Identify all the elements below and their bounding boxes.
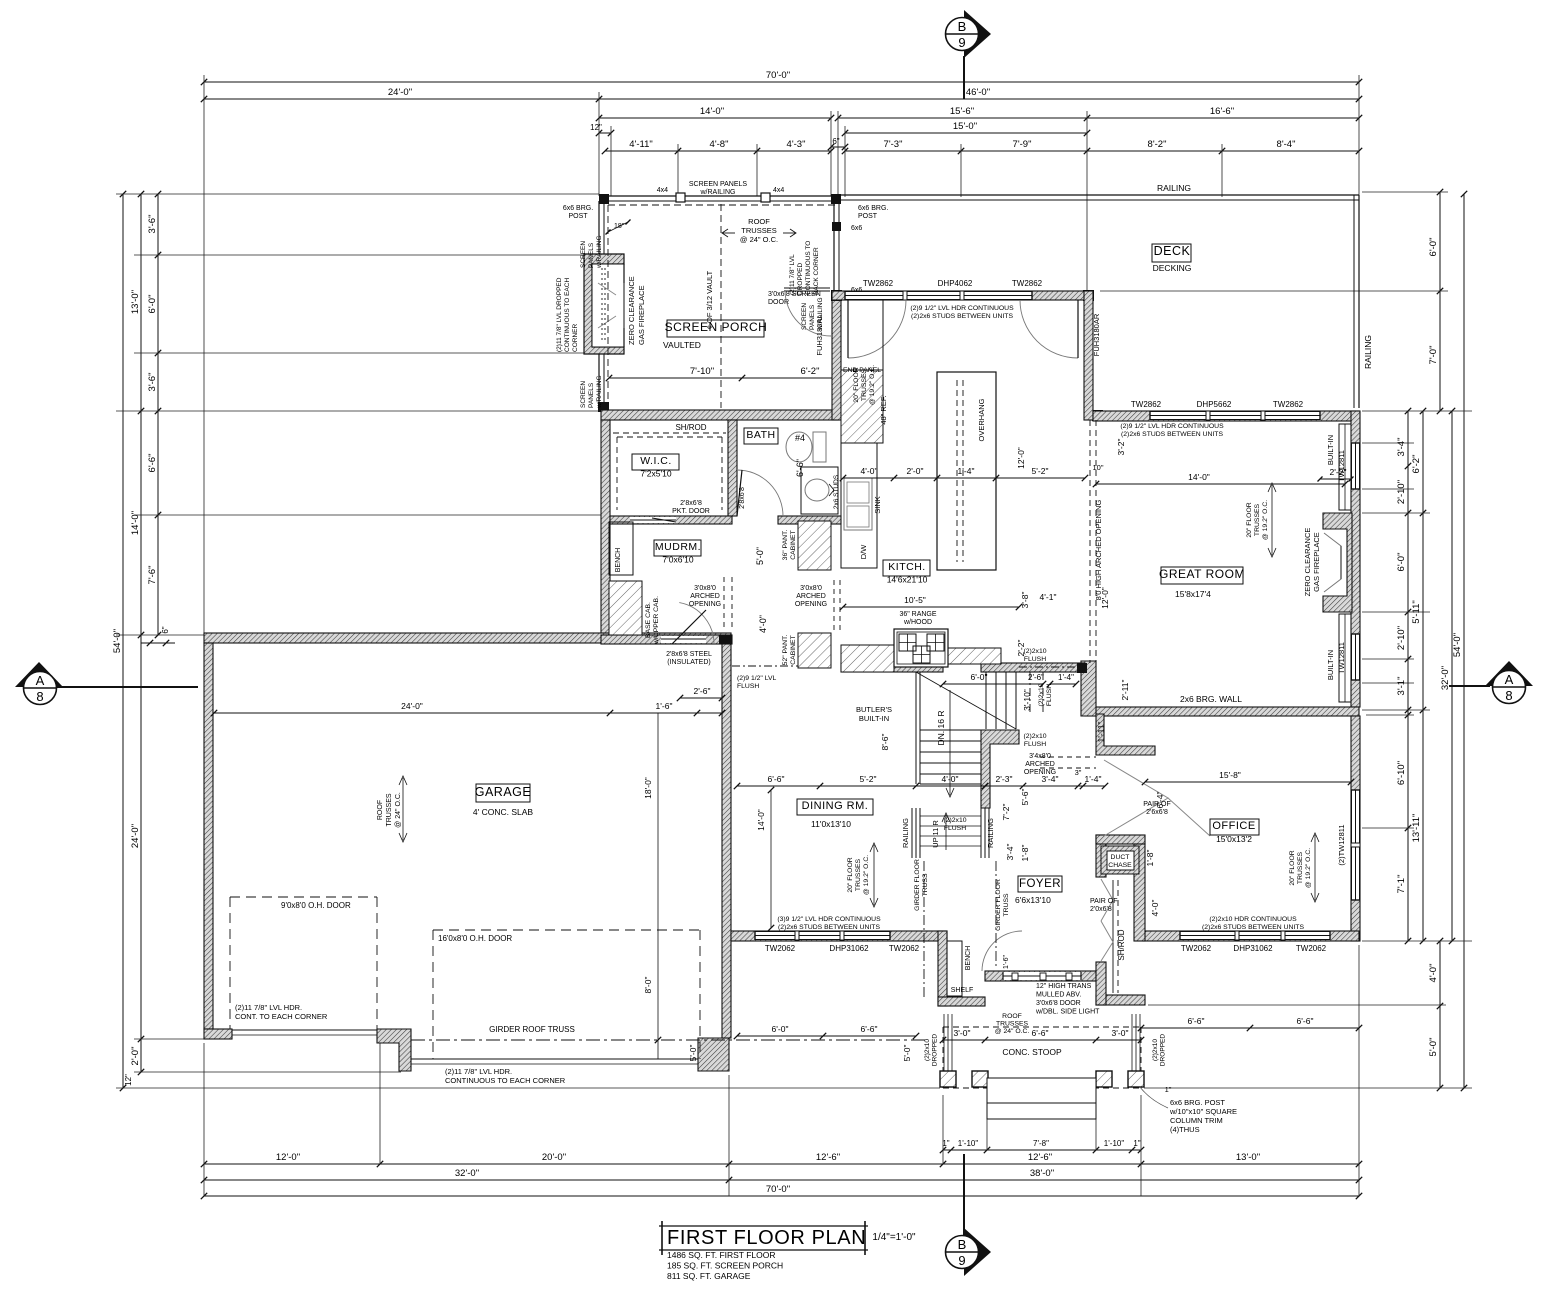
arc mudroom opening [672, 603, 714, 644]
great room arched opening dashed [1090, 420, 1096, 663]
label 8-0 arched opening [1094, 500, 1103, 601]
dim 1-11 rot office [1096, 721, 1106, 742]
svg-text:3'-0": 3'-0" [954, 1028, 971, 1038]
window great room east TW12811 lower [1351, 634, 1360, 680]
note 20ft floor trusses dining [847, 855, 870, 895]
dim 6-4 rot office [1155, 792, 1165, 809]
svg-text:12" HIGH TRANS: 12" HIGH TRANS [1036, 983, 1092, 990]
svg-text:(2)2x6 STUDS BETWEEN UNITS: (2)2x6 STUDS BETWEEN UNITS [1202, 924, 1304, 931]
label girder floor truss left [914, 859, 929, 911]
arc bath door [737, 470, 783, 516]
dim right bottom col [1428, 938, 1443, 1091]
label bath door size [739, 487, 746, 509]
svg-text:BUILT-IN: BUILT-IN [1326, 435, 1335, 465]
svg-text:15'-8": 15'-8" [1219, 770, 1241, 780]
svg-text:2'-6": 2'-6" [694, 686, 711, 696]
svg-text:3'-0": 3'-0" [1112, 1028, 1129, 1038]
svg-text:20'-0": 20'-0" [542, 1152, 566, 1163]
svg-text:3'0x8'0: 3'0x8'0 [800, 585, 822, 592]
svg-text:2'0x6'8: 2'0x6'8 [1090, 906, 1112, 913]
label TW12811 upper [1337, 450, 1346, 482]
dim right mid col [1411, 408, 1426, 944]
post kitchen NW corner [831, 290, 842, 301]
svg-text:14'6x21'10: 14'6x21'10 [887, 575, 928, 585]
label window TW2862 c [1131, 400, 1162, 409]
svg-text:3'-4": 3'-4" [1042, 774, 1059, 784]
stoop column 1 [940, 1071, 956, 1087]
note zero clearance gas fireplace porch [627, 276, 646, 345]
wall kitchen south left [841, 663, 943, 672]
svg-text:1'-8": 1'-8" [1145, 850, 1155, 867]
note hdr office south [1202, 916, 1304, 931]
svg-text:15'-0": 15'-0" [953, 121, 977, 132]
svg-text:1'-11": 1'-11" [1096, 721, 1106, 742]
svg-text:DECKING: DECKING [1153, 263, 1192, 273]
dim top 6in [828, 137, 848, 150]
svg-text:6": 6" [832, 137, 839, 146]
svg-text:(2)11 7/8" LVL: (2)11 7/8" LVL [789, 254, 796, 295]
dim stoop row [940, 1028, 1144, 1043]
svg-text:20" FLOOR: 20" FLOOR [853, 367, 860, 402]
svg-text:12'-6": 12'-6" [816, 1152, 840, 1163]
wall stair east jog [981, 730, 1019, 808]
roof truss arrows porch [722, 229, 796, 237]
svg-text:ROOF: ROOF [377, 800, 384, 820]
svg-text:7'-0": 7'-0" [1428, 346, 1439, 365]
wall office south [1143, 931, 1359, 941]
svg-text:OVERHANG: OVERHANG [977, 398, 986, 441]
hall flush beam dashed [732, 665, 798, 667]
svg-text:DHP5662: DHP5662 [1197, 400, 1232, 409]
dim bottom row1 [201, 1152, 1362, 1167]
svg-text:DN. 16 R: DN. 16 R [936, 711, 946, 746]
svg-text:FLUSH: FLUSH [1024, 741, 1046, 748]
dim 14-0 rot dining [756, 809, 766, 831]
svg-text:DROPPED: DROPPED [1160, 1034, 1167, 1066]
svg-text:D/W: D/W [859, 544, 868, 560]
label SH/ROD closet [1117, 929, 1126, 960]
svg-text:TW2862: TW2862 [1131, 400, 1162, 409]
svg-text:5'-0": 5'-0" [755, 547, 765, 565]
label TW12811 lower [1337, 642, 1346, 674]
svg-text:12'-0": 12'-0" [1016, 447, 1026, 469]
svg-text:1'-10": 1'-10" [958, 1139, 979, 1148]
label 6x6 mid post [851, 225, 862, 294]
stoop dropped lines right [1132, 1014, 1140, 1078]
svg-text:3": 3" [1075, 768, 1082, 777]
stoop column 2 [972, 1071, 988, 1087]
label window TW2862 d [1273, 400, 1304, 409]
note 36 range [899, 611, 936, 626]
svg-text:48" REF.: 48" REF. [879, 395, 888, 424]
svg-text:(INSULATED): (INSULATED) [667, 659, 710, 666]
label 4x4 posts [657, 187, 785, 194]
section marker A8 right [1449, 661, 1533, 704]
svg-text:20" FLOOR: 20" FLOOR [1289, 850, 1296, 885]
svg-text:w/RAILING: w/RAILING [596, 235, 603, 269]
svg-text:FLUSH: FLUSH [944, 825, 966, 832]
svg-text:6'-2": 6'-2" [801, 366, 820, 377]
wall mudroom south [601, 635, 732, 644]
note arched opening mudroom [689, 585, 721, 608]
screen porch top screen panels [599, 193, 838, 202]
svg-text:SCREEN PORCH: SCREEN PORCH [665, 320, 768, 334]
svg-text:@ 19.2" O.C.: @ 19.2" O.C. [1262, 500, 1269, 540]
svg-text:2'8x6'8 STEEL: 2'8x6'8 STEEL [666, 651, 712, 658]
svg-text:(3)9 1/2" LVL HDR CONTINUOUS: (3)9 1/2" LVL HDR CONTINUOUS [777, 916, 881, 923]
kitchen hall arch dashed [834, 580, 840, 631]
extension lines left [116, 194, 940, 1088]
svg-text:14'-0": 14'-0" [756, 809, 766, 831]
arched opening foyer dashed [1040, 757, 1096, 768]
svg-text:VAULTED: VAULTED [663, 340, 701, 350]
svg-text:1486 SQ. FT. FIRST FLOOR: 1486 SQ. FT. FIRST FLOOR [667, 1250, 775, 1260]
svg-text:ROOF: ROOF [1002, 1013, 1022, 1020]
note 6x6 brg post left [563, 205, 593, 220]
svg-text:8'-0": 8'-0" [643, 977, 653, 994]
svg-text:6'-0": 6'-0" [1428, 238, 1439, 257]
wall closet west upper [1096, 835, 1106, 877]
note 2x10 flush b [1038, 683, 1053, 706]
note zero clearance great room [1303, 528, 1321, 597]
svg-text:5'-2": 5'-2" [860, 774, 877, 784]
svg-text:6'-6": 6'-6" [768, 774, 785, 784]
label up 11 r [931, 820, 940, 848]
svg-text:6'-4": 6'-4" [1155, 792, 1165, 809]
label 2x10 dropped left [924, 1034, 939, 1066]
note screen door [768, 291, 821, 306]
svg-text:3'-1": 3'-1" [1396, 677, 1407, 696]
label office TW2062 a [1181, 944, 1212, 953]
room label DECK [1152, 244, 1191, 262]
svg-text:3'-6": 3'-6" [147, 373, 158, 392]
svg-text:8: 8 [36, 689, 43, 704]
label dining DHP31062 [829, 944, 869, 953]
svg-text:PAIR OF: PAIR OF [1090, 898, 1117, 905]
svg-text:@ 19.2" O.C.: @ 19.2" O.C. [869, 365, 876, 405]
svg-text:36" RANGE: 36" RANGE [899, 611, 936, 618]
svg-text:7'-2": 7'-2" [1001, 804, 1011, 821]
room label GREAT ROOM [1159, 567, 1245, 584]
svg-text:CORNER: CORNER [572, 324, 579, 352]
dim hall 5-0 rot [755, 547, 765, 565]
dim left 6in tiny [141, 626, 175, 646]
svg-text:SCREEN: SCREEN [580, 381, 587, 408]
built-in upper [1339, 424, 1351, 510]
label dining TW2062 a [765, 944, 796, 953]
garage interior vdim [655, 713, 661, 1059]
note 6x6 brg post right [858, 205, 888, 220]
svg-text:MULLED ABV.: MULLED ABV. [1036, 992, 1081, 999]
wall closet north [1096, 835, 1145, 844]
svg-text:7'-10": 7'-10" [690, 366, 714, 377]
wall garage west [204, 643, 213, 1029]
svg-text:GAS FIREPLACE: GAS FIREPLACE [1312, 532, 1321, 592]
svg-text:6'-0": 6'-0" [147, 295, 158, 314]
svg-text:54'-0": 54'-0" [1452, 633, 1463, 657]
svg-text:3'4x8'0: 3'4x8'0 [1029, 753, 1051, 760]
svg-text:w/DBL. SIDE LIGHT: w/DBL. SIDE LIGHT [1035, 1009, 1100, 1016]
svg-text:@ 19.2" O.C.: @ 19.2" O.C. [863, 855, 870, 895]
room label MUDRM [654, 540, 701, 565]
svg-text:PANELS: PANELS [588, 382, 595, 408]
svg-text:8'-6": 8'-6" [880, 734, 890, 751]
stair up arrow [942, 813, 950, 850]
svg-text:6x6: 6x6 [851, 225, 862, 232]
label office DHP31062 [1233, 944, 1273, 953]
bench mudroom [609, 522, 633, 575]
svg-text:3'0x6'8 DOOR: 3'0x6'8 DOOR [1036, 1000, 1081, 1007]
svg-text:2'8x6'8: 2'8x6'8 [739, 487, 746, 509]
svg-text:BUTLER'S: BUTLER'S [856, 705, 892, 714]
label SH/ROD wic [675, 423, 706, 432]
svg-text:18'-0": 18'-0" [643, 777, 653, 799]
post porch SW 6x6 [598, 402, 609, 412]
dim 3-4 rot stair [1005, 844, 1015, 861]
svg-text:2x6 BRG. WALL: 2x6 BRG. WALL [1180, 694, 1242, 704]
dim 12-0 rot great room [1100, 587, 1110, 609]
dim hall 4-0 rot [758, 615, 768, 633]
label girder roof truss [489, 1025, 575, 1034]
truss arrow dining [870, 843, 878, 907]
svg-text:2'-2": 2'-2" [1330, 467, 1347, 477]
room label BATH4 [744, 428, 778, 444]
deck railing top [838, 195, 1359, 200]
note brg post column [1169, 1098, 1237, 1134]
dim great room 14ft [1093, 472, 1348, 487]
dim bottom row2 [201, 1168, 1362, 1183]
window office east (2)TW12811 [1351, 790, 1360, 900]
svg-text:2'6x6'8: 2'6x6'8 [1146, 809, 1168, 816]
wall foyer jog step [1096, 714, 1155, 755]
note butlers built-in [856, 705, 892, 723]
svg-text:6'-6": 6'-6" [1032, 1028, 1049, 1038]
svg-text:8'-2": 8'-2" [1148, 139, 1167, 150]
svg-text:1": 1" [942, 1139, 949, 1148]
svg-text:PANELS: PANELS [588, 242, 595, 268]
svg-text:GIRDER FLOOR: GIRDER FLOOR [914, 859, 921, 911]
svg-text:KITCH.: KITCH. [888, 561, 925, 573]
svg-text:(2)TW12811: (2)TW12811 [1337, 824, 1346, 865]
dim right small col [1396, 408, 1411, 944]
dim 5-6 rot foyer [1020, 789, 1030, 806]
svg-text:1'-6": 1'-6" [656, 701, 673, 711]
great room fireplace [1323, 513, 1352, 612]
svg-text:2'8x6'8: 2'8x6'8 [680, 500, 702, 507]
room label WIC [632, 454, 679, 479]
note 2x10 flush stair [943, 817, 966, 832]
svg-text:12": 12" [124, 1074, 133, 1086]
stoop dashed outline [943, 1027, 1141, 1088]
svg-text:8'0 HIGH ARCHED OPENING: 8'0 HIGH ARCHED OPENING [1094, 500, 1103, 601]
post porch NW 6x6 [599, 194, 609, 204]
note 16ft oh door [438, 934, 512, 943]
svg-text:6'-6": 6'-6" [861, 1024, 878, 1034]
svg-text:6'-0": 6'-0" [971, 672, 988, 682]
dining interior vdim [768, 787, 774, 931]
arc door FUH3180AL [848, 300, 906, 358]
svg-text:TRUSSES: TRUSSES [1254, 503, 1261, 536]
girder roof truss line [411, 1039, 925, 1041]
svg-text:BATH: BATH [746, 429, 775, 441]
dim foyer top row [734, 774, 1108, 789]
svg-text:DHP4062: DHP4062 [938, 279, 973, 288]
dim top 15-6 16-6 [835, 106, 1362, 121]
svg-text:46'-0": 46'-0" [966, 87, 990, 98]
svg-text:9: 9 [958, 35, 965, 50]
svg-text:10'-5": 10'-5" [904, 595, 926, 605]
post kitchen-foyer corner [1077, 663, 1087, 673]
svg-text:RAILING: RAILING [1363, 335, 1373, 369]
wall entry [985, 971, 1096, 981]
svg-text:A: A [36, 673, 45, 688]
extension lines right [1100, 192, 1472, 1088]
wall east office [1351, 716, 1360, 941]
svg-text:2'-10": 2'-10" [1396, 480, 1407, 504]
label window TW2862 a [863, 279, 894, 288]
dim left inner col [147, 191, 161, 638]
note cl of vault [705, 270, 714, 329]
svg-text:7'-9": 7'-9" [1013, 139, 1032, 150]
svg-text:6x6 BRG. POST: 6x6 BRG. POST [1170, 1098, 1225, 1107]
pair doors office [1104, 760, 1210, 836]
svg-text:12'-0": 12'-0" [276, 1152, 300, 1163]
extension lines bottom [204, 945, 1359, 1196]
dim right deck col [1428, 189, 1443, 414]
svg-text:70'-0": 70'-0" [766, 70, 790, 81]
note 20ft floor trusses office [1289, 848, 1312, 888]
dim top 12in [590, 123, 614, 136]
svg-text:FLUSH: FLUSH [737, 683, 759, 690]
dim 1-8 rot office [1145, 850, 1155, 867]
svg-text:FUH3180AR: FUH3180AR [1092, 313, 1101, 356]
stoop steps [987, 1078, 1096, 1119]
note roof trusses stoop [995, 1013, 1030, 1035]
label window TW2862 b [1012, 279, 1043, 288]
svg-text:5'-0": 5'-0" [688, 1045, 698, 1062]
stoop dropped lines left [944, 1014, 952, 1078]
kitchen west counters [841, 300, 883, 568]
label dn 16 r [936, 711, 946, 746]
dim 4-0 rot office [1150, 900, 1160, 917]
svg-text:@ 19.2" O.C.: @ 19.2" O.C. [1305, 848, 1312, 888]
svg-text:TW2862: TW2862 [863, 279, 894, 288]
wall mudroom west [601, 420, 610, 635]
wall kitchen north [832, 291, 1093, 300]
svg-text:2x6 STUDS: 2x6 STUDS [833, 474, 840, 509]
svg-text:12": 12" [590, 123, 602, 132]
svg-text:@ 24" O.C.: @ 24" O.C. [995, 1028, 1030, 1035]
wall garage south right corner [698, 1038, 729, 1071]
garage 16ft door dashed [433, 930, 700, 1059]
dim 2-2 great room [1318, 467, 1354, 482]
arc entry door [982, 931, 1022, 971]
svg-text:1'-4": 1'-4" [1058, 673, 1074, 682]
svg-text:CABINET: CABINET [790, 635, 797, 664]
note hdr great room north [1120, 423, 1224, 438]
svg-text:6'-6": 6'-6" [1297, 1016, 1314, 1026]
kitchen south counter left [841, 645, 894, 672]
svg-text:6x6 BRG.: 6x6 BRG. [563, 205, 593, 212]
svg-text:CABINET: CABINET [790, 530, 797, 559]
post kitchen jog corner [1083, 290, 1094, 301]
svg-text:2'-0": 2'-0" [130, 1047, 141, 1066]
svg-text:4'-0": 4'-0" [942, 774, 959, 784]
garage 9ft door dashed [230, 897, 377, 1029]
svg-text:DUCT: DUCT [1111, 854, 1130, 861]
svg-text:DROPPED: DROPPED [932, 1034, 939, 1066]
dim 2-2 rot foyer [1016, 640, 1026, 657]
svg-text:54'-0": 54'-0" [112, 629, 123, 653]
svg-text:1'-4": 1'-4" [958, 466, 975, 476]
dim 8-6 rot stair [880, 734, 890, 751]
svg-text:(2)2x10: (2)2x10 [924, 1039, 931, 1061]
svg-text:CONTINUOUS TO: CONTINUOUS TO [805, 241, 812, 295]
svg-text:(2)11 7/8" LVL HDR.: (2)11 7/8" LVL HDR. [445, 1067, 512, 1076]
svg-text:BUILT-IN: BUILT-IN [859, 714, 889, 723]
girder floor truss dashed left [923, 861, 925, 1000]
wall wic-bath divider [728, 420, 737, 516]
note screen panels left bottom [580, 375, 603, 409]
label 36 pant cabinet [782, 530, 797, 561]
dim left 13-14-24 [130, 191, 144, 1075]
svg-text:15'8x17'4: 15'8x17'4 [1175, 589, 1211, 599]
label built-in upper [1326, 435, 1335, 465]
svg-text:3'-4": 3'-4" [1005, 844, 1015, 861]
wall closet west lower [1096, 962, 1106, 1005]
dim garage 24ft [211, 701, 725, 716]
wall wic south [610, 516, 732, 524]
label FUH3180AL [815, 314, 824, 355]
svg-text:4x4: 4x4 [657, 187, 668, 194]
svg-text:3'-4": 3'-4" [1396, 438, 1407, 457]
svg-text:6'-0": 6'-0" [772, 1024, 789, 1034]
wall kitchen west [832, 291, 841, 420]
svg-text:TW2062: TW2062 [1296, 944, 1327, 953]
svg-text:6'-6": 6'-6" [1188, 1016, 1205, 1026]
svg-text:5'-0": 5'-0" [902, 1045, 912, 1062]
svg-text:(2)2x10: (2)2x10 [1023, 648, 1046, 655]
svg-text:7'-1": 7'-1" [1396, 875, 1407, 894]
dim left 12in tiny [124, 1074, 133, 1086]
note screen panels left top [580, 235, 603, 269]
svg-text:1'-4": 1'-4" [1085, 774, 1102, 784]
wall nook south [938, 997, 985, 1006]
room label GARAGE [475, 784, 532, 802]
svg-text:(2)9 1/2" LVL HDR CONTINUOUS: (2)9 1/2" LVL HDR CONTINUOUS [910, 305, 1014, 312]
note lvl dropped back corner [789, 241, 820, 295]
svg-text:36" PANT.: 36" PANT. [782, 530, 789, 561]
svg-text:SHELF: SHELF [951, 987, 974, 994]
room label KITCH [883, 560, 930, 585]
range 36in [894, 629, 948, 667]
svg-text:8: 8 [1505, 688, 1512, 703]
svg-text:20" FLOOR: 20" FLOOR [847, 857, 854, 892]
dim kitchen interior row [840, 466, 1088, 481]
dim top 15-0 [842, 121, 1090, 136]
svg-text:ARCHED: ARCHED [690, 593, 720, 600]
label 2x10 dropped right [1152, 1034, 1167, 1066]
svg-text:6x6 BRG.: 6x6 BRG. [858, 205, 888, 212]
svg-text:1/4"=1'-0": 1/4"=1'-0" [872, 1232, 916, 1243]
svg-text:7'-3": 7'-3" [884, 139, 903, 150]
svg-text:4x4: 4x4 [773, 187, 784, 194]
window dining south TW2062-DHP31062-TW2062 [755, 931, 890, 940]
svg-text:BASE CAB.: BASE CAB. [645, 602, 652, 638]
svg-text:(2)2x10: (2)2x10 [943, 817, 966, 824]
svg-text:2'-10": 2'-10" [1396, 626, 1407, 650]
svg-text:15'-6": 15'-6" [950, 106, 974, 117]
